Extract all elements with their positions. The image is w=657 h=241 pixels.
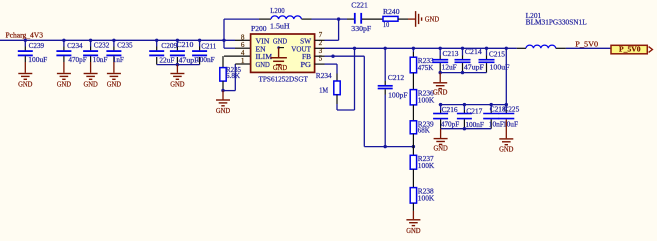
capacitor C210 (170, 40, 185, 64)
pin name EN (256, 45, 267, 53)
svg-text:GND: GND (256, 61, 270, 69)
value 100pF (388, 91, 408, 99)
value 1.5uH (270, 22, 290, 30)
designator P200 (251, 25, 267, 33)
value 22uF of C209 (159, 56, 174, 64)
svg-text:C221: C221 (351, 1, 368, 9)
svg-text:GND: GND (57, 81, 71, 89)
junction on rail at C210 (176, 39, 179, 42)
pin number 4 (241, 49, 245, 57)
internal ground symbol (270, 46, 287, 72)
svg-text:C225: C225 (503, 106, 519, 114)
net label P_5V0 (575, 40, 598, 48)
svg-text:P200: P200 (251, 25, 267, 33)
svg-text:C213: C213 (443, 50, 459, 58)
svg-text:PG: PG (301, 61, 312, 69)
svg-text:100K: 100K (418, 195, 435, 203)
label C239 (29, 42, 45, 50)
svg-text:6.8K: 6.8K (226, 72, 241, 80)
label C218 (490, 106, 506, 114)
capacitor C209 (149, 40, 164, 64)
pin number 5 (319, 55, 323, 63)
junction on rail at C234 (62, 39, 65, 42)
label C213 (443, 50, 459, 58)
inductor L201 ferrite bead (517, 45, 611, 48)
junction on rail at C235 (112, 39, 115, 42)
junction on VOUT at C215 (485, 47, 488, 50)
resistor R233 (410, 48, 416, 89)
value TPS61252DSGT (259, 75, 309, 83)
ground below C235 (107, 62, 121, 89)
svg-text:1.5uH: 1.5uH (270, 22, 290, 30)
svg-text:VIN: VIN (256, 37, 271, 45)
junction C213 bottom (439, 71, 442, 74)
svg-text:6: 6 (241, 41, 245, 49)
pin name PG (301, 61, 312, 69)
label R237 (418, 155, 434, 163)
svg-text:C217: C217 (466, 108, 482, 116)
svg-text:R240: R240 (383, 8, 400, 16)
svg-text:C235: C235 (117, 41, 133, 49)
pin number 3 (319, 47, 323, 55)
value 47upF of C210 (179, 56, 199, 64)
svg-text:GND: GND (170, 81, 184, 89)
ground below C232 (83, 62, 97, 89)
svg-text:C212: C212 (388, 74, 405, 82)
capacitor C214 (455, 48, 471, 72)
capacitor C218 (483, 105, 499, 129)
label R233 (418, 57, 434, 65)
junction on top wire at C218 (490, 103, 493, 106)
junction on rail at C232 (89, 39, 92, 42)
value 1M (319, 87, 329, 95)
value 470pF of C234 (68, 56, 86, 64)
label L200 (270, 7, 285, 15)
wire: EN stub (224, 47, 251, 49)
ground below C225 (499, 119, 513, 153)
label C210 (176, 41, 193, 49)
svg-text:VOUT: VOUT (291, 45, 311, 53)
wire: ILIM stub (224, 55, 251, 57)
value 6.8K (226, 72, 241, 80)
wire: PG stub (315, 63, 338, 65)
junction on top wire at C216 (439, 103, 442, 106)
capacitor C212 (378, 48, 393, 146)
svg-text:GND: GND (433, 89, 447, 97)
pin name FB (302, 53, 311, 61)
svg-text:C209: C209 (161, 42, 177, 50)
svg-text:1: 1 (241, 57, 245, 65)
wire: VOUT output rail (315, 47, 517, 49)
wire: FB stub (315, 55, 334, 57)
label C217 (466, 108, 482, 116)
svg-text:P_5V0: P_5V0 (575, 40, 598, 48)
svg-text:P_5V0: P_5V0 (619, 46, 641, 54)
value 100nF of C211 (196, 56, 215, 64)
value 100uF of C215 (490, 64, 510, 72)
svg-text:7: 7 (319, 31, 323, 39)
capacitor C239 (18, 40, 33, 62)
label R236 (418, 89, 434, 97)
svg-text:GND: GND (273, 64, 287, 72)
junction VOUT/C212 (384, 47, 387, 50)
label C211 (201, 42, 216, 50)
svg-text:BLM31PG330SN1L: BLM31PG330SN1L (526, 18, 587, 26)
pin number 2 (319, 39, 323, 47)
svg-text:R234: R234 (316, 72, 332, 80)
svg-text:GND: GND (433, 145, 447, 153)
label C234 (67, 42, 83, 50)
svg-text:475K: 475K (418, 64, 434, 72)
value BLM31PG330SN1L (526, 18, 587, 26)
junction on rail at C239 (24, 39, 27, 42)
svg-text:10: 10 (383, 21, 390, 29)
ground below R235 (216, 91, 230, 115)
pin number 8 (241, 33, 245, 41)
wire: FB to divider tap (333, 56, 413, 146)
svg-text:C210: C210 (176, 41, 193, 49)
value 330pF (351, 25, 371, 33)
value 10 (383, 21, 390, 29)
value 10uF of C225 (503, 121, 518, 129)
value 100K of R237 (418, 162, 435, 170)
junction on top wire at C217 (463, 103, 466, 106)
svg-text:SW: SW (300, 37, 311, 45)
capacitor C235 (106, 40, 121, 62)
value 470pF of C216 (441, 120, 459, 128)
wire: Pcharg_4V3 input rail (0, 39, 251, 41)
value 10nF of C232 (93, 56, 108, 64)
svg-text:1M: 1M (319, 87, 329, 95)
inductor L200 (224, 16, 339, 19)
junction VOUT to second bank (505, 47, 508, 50)
svg-text:8: 8 (241, 33, 245, 41)
svg-text:47upF: 47upF (464, 63, 484, 71)
label C212 (388, 74, 405, 82)
resistor R239 (410, 121, 416, 147)
wire: vertical to L200 and EN (223, 19, 225, 48)
label C215 (489, 50, 505, 58)
label R238 (418, 188, 434, 196)
svg-text:C211: C211 (201, 42, 216, 50)
value 100nF of C217 (465, 121, 484, 129)
wire: bottom of C216-C218 (441, 128, 492, 130)
svg-text:470pF: 470pF (441, 120, 459, 128)
wire: SW stub up (315, 19, 339, 40)
ground below C213 (433, 73, 447, 97)
junction on VOUT at C213 (439, 47, 442, 50)
ground below R238 (406, 211, 420, 235)
label C214 (465, 48, 482, 56)
svg-text:10nF: 10nF (489, 121, 504, 129)
svg-text:4: 4 (241, 49, 245, 57)
svg-text:470pF: 470pF (68, 56, 86, 64)
junction VOUT/R233 (412, 47, 415, 50)
ground below C210 group (170, 65, 184, 89)
capacitor C211 (192, 40, 207, 64)
resistor R240 (383, 16, 408, 21)
pin name GND (pad) (273, 37, 287, 45)
svg-text:100uF: 100uF (28, 56, 47, 64)
junction SW/L200/C221 (337, 17, 340, 20)
svg-text:C232: C232 (94, 42, 110, 50)
svg-text:330pF: 330pF (351, 25, 371, 33)
pin name GND (256, 61, 270, 69)
junction on top wire at C225 (505, 103, 508, 106)
capacitor C217 (457, 105, 472, 129)
value 475K (418, 64, 434, 72)
label R234 (316, 72, 332, 80)
wire: common bottom of C209-C211 (157, 64, 200, 66)
svg-text:L200: L200 (270, 7, 285, 15)
svg-text:EN: EN (256, 45, 267, 53)
resistor R236 (410, 90, 416, 121)
port P_5V0 (611, 45, 652, 54)
resistor R238 (410, 188, 416, 211)
label C235 (117, 41, 133, 49)
junction VOUT/R234 (353, 47, 356, 50)
value 1nF of C235 (113, 56, 124, 64)
label C209 (161, 42, 177, 50)
value 12uF of C213 (442, 63, 457, 71)
svg-text:68K: 68K (418, 126, 431, 134)
svg-text:10uF: 10uF (503, 121, 518, 129)
junction FB tap at divider (412, 145, 415, 148)
ground below C234 (57, 62, 71, 89)
value 100K of R236 (418, 96, 435, 104)
junction on VOUT at C214 (461, 47, 464, 50)
op-amp/regulator P200 TPS61252DSGT body (251, 34, 315, 72)
label C225 (503, 106, 519, 114)
junction on rail at C211 (198, 39, 201, 42)
svg-text:C239: C239 (29, 42, 45, 50)
pin number 1 (241, 57, 245, 65)
svg-text:GND: GND (107, 81, 121, 89)
junction C214 bottom (461, 71, 464, 74)
svg-text:C215: C215 (489, 50, 505, 58)
svg-text:100K: 100K (418, 162, 435, 170)
capacitor C234 (56, 40, 71, 62)
svg-text:FB: FB (302, 53, 311, 61)
value 47upF of C214 (464, 63, 484, 71)
resistor R234 (334, 64, 340, 110)
label R240 (383, 8, 400, 16)
pin number 7 (319, 31, 323, 39)
junction C212/FB wire (384, 145, 387, 148)
svg-text:100K: 100K (418, 96, 435, 104)
capacitor C216 (433, 105, 448, 129)
label R235 (226, 66, 241, 74)
svg-text:22uF: 22uF (159, 56, 174, 64)
value 100uF of C239 (28, 56, 47, 64)
capacitor C213 (432, 48, 448, 72)
pin number 6 (241, 41, 245, 49)
svg-text:12uF: 12uF (442, 63, 457, 71)
junction rail/EN/L200 (222, 39, 225, 42)
svg-text:GND: GND (216, 107, 230, 115)
resistor R235 (220, 56, 226, 90)
capacitor C225 (498, 105, 514, 119)
ground (sideways) after R240 (408, 11, 439, 27)
svg-text:GND: GND (273, 37, 287, 45)
value 100K of R238 (418, 195, 435, 203)
capacitor C215 (479, 48, 495, 72)
wire: R234 bottom to VOUT (337, 48, 355, 110)
svg-text:TPS61252DSGT: TPS61252DSGT (259, 75, 309, 83)
pin name ILIM (256, 53, 273, 61)
pin name VIN (256, 37, 271, 45)
svg-text:Pcharg_4V3: Pcharg_4V3 (6, 31, 44, 39)
svg-text:C216: C216 (442, 106, 458, 114)
svg-text:GND: GND (499, 146, 513, 154)
svg-text:GND: GND (425, 16, 439, 24)
svg-text:100nF: 100nF (465, 121, 484, 129)
junction on rail at C209 (155, 39, 158, 42)
pin name SW (300, 37, 311, 45)
wire: vertical VOUT to second bank (505, 48, 507, 104)
label C221 (351, 1, 368, 9)
svg-text:100pF: 100pF (388, 91, 408, 99)
svg-text:C234: C234 (67, 42, 83, 50)
capacitor C221 (339, 13, 383, 24)
resistor R237 (410, 147, 416, 188)
svg-text:GND: GND (83, 81, 97, 89)
label C216 (442, 106, 458, 114)
junction on FB (331, 55, 334, 58)
svg-text:GND: GND (18, 81, 32, 89)
ground below C239 (18, 62, 32, 89)
value 68K (418, 126, 431, 134)
pin name VOUT (291, 45, 311, 53)
junction R235/GND (221, 89, 224, 92)
net label Pcharg_4V3 (6, 31, 44, 39)
label R239 (418, 120, 434, 128)
svg-text:C214: C214 (465, 48, 482, 56)
junction C217 bottom (463, 127, 466, 130)
label C232 (94, 42, 110, 50)
wire: pin1 GND to R235 node (223, 64, 251, 91)
value 10nF of C218 (489, 121, 504, 129)
capacitor C232 (83, 40, 98, 62)
wire: bottom of C213-C215 (440, 72, 486, 74)
svg-text:10nF: 10nF (93, 56, 108, 64)
ground below C216 (433, 129, 447, 153)
svg-text:GND: GND (406, 227, 420, 235)
junction at C210 bottom (176, 63, 179, 66)
svg-text:100nF: 100nF (196, 56, 215, 64)
label L201 (526, 12, 542, 20)
wire: top of C216-C225 (439, 104, 507, 106)
svg-text:ILIM: ILIM (256, 53, 273, 61)
